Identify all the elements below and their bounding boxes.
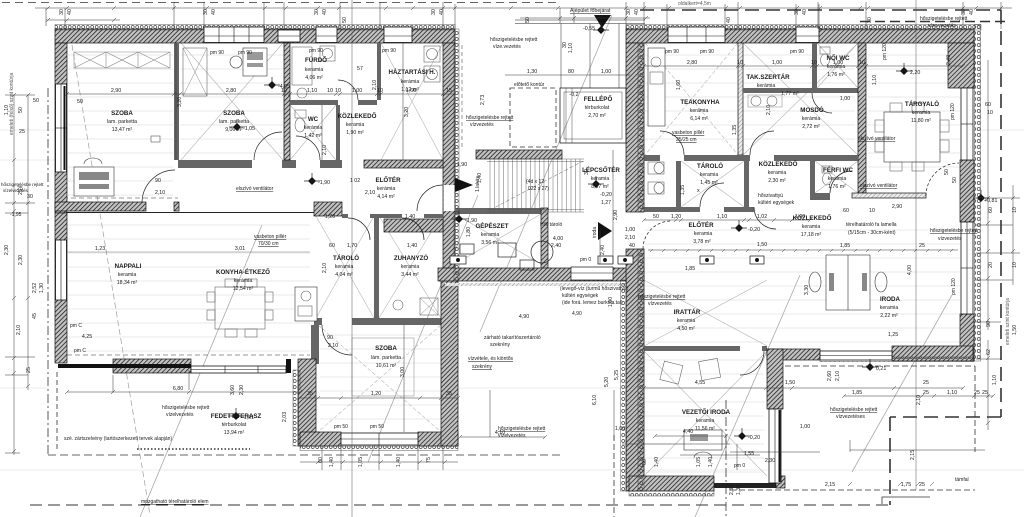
svg-text:pm 90: pm 90 [382, 48, 396, 54]
svg-text:kerámia: kerámia [802, 116, 821, 122]
svg-text:kerámia: kerámia [690, 108, 709, 114]
wall: lepcsoter north band [476, 150, 562, 159]
dashed terrace SE horizontal [785, 365, 975, 367]
wall: office south band east thick [892, 346, 973, 361]
dim chain: left side [14, 95, 28, 455]
svg-text:HW tároló: HW tároló [540, 222, 562, 228]
svg-text:keramia: keramia [912, 110, 931, 116]
svg-text:KÖZLEKEDŐ: KÖZLEKEDŐ [338, 113, 377, 120]
dashed line above glass wall nappali [67, 354, 310, 356]
furniture: kitchen table [215, 287, 265, 329]
insulation strip house top [55, 25, 455, 31]
svg-text:iroda: iroda [592, 227, 598, 238]
note: vasbeton piller office [672, 130, 705, 143]
dim line: fedett terasz windows row [622, 443, 730, 445]
svg-text:A épület főbejárat: A épület főbejárat [570, 8, 611, 14]
svg-text:TAK.SZERTÁR: TAK.SZERTÁR [746, 74, 790, 81]
wall: office right exterior upper [960, 43, 974, 88]
roof diagonal left [140, 225, 262, 517]
wall: vezetoi south glass door [714, 483, 781, 488]
svg-text:1,05: 1,05 [696, 457, 702, 467]
svg-text:75: 75 [426, 457, 432, 463]
wall: vezetoi south exterior [629, 476, 714, 491]
insulation strip office west lower [621, 280, 627, 491]
svg-text:4,25: 4,25 [82, 334, 92, 340]
insulation strip office west [638, 43, 644, 212]
dashed line eloter corridor [55, 197, 178, 199]
svg-text:1,30: 1,30 [527, 69, 537, 75]
door arc: targyalo south dashed [926, 163, 959, 196]
svg-text:keramia: keramia [591, 176, 610, 182]
dim chain: bottom right rows [730, 396, 993, 452]
cross terasz szoba lower [318, 325, 441, 432]
svg-text:10: 10 [335, 88, 341, 94]
svg-text:keramia: keramia [802, 224, 821, 230]
note: fa lamella [846, 222, 897, 236]
room label: eloter office [688, 221, 714, 245]
wall: partition szoba2/wc [284, 43, 290, 160]
svg-text:3,78 m²: 3,78 m² [693, 239, 711, 245]
svg-text:2,15: 2,15 [825, 482, 835, 488]
svg-text:30: 30 [562, 42, 568, 48]
wall: szoba lower south exterior [300, 432, 341, 446]
wall: partition teakonyha/tak.szertar [738, 43, 743, 155]
cross wc house [290, 105, 336, 160]
svg-text:50: 50 [525, 17, 531, 23]
svg-text:1,23: 1,23 [95, 246, 105, 252]
svg-text:1,00: 1,00 [615, 426, 625, 432]
furniture: szoba2 wardrobe [183, 48, 207, 96]
dim chain: office row y209 [644, 219, 810, 221]
wall: band y155 office [644, 155, 660, 161]
svg-text:-1,05: -1,05 [243, 126, 255, 132]
svg-text:WC: WC [308, 116, 319, 123]
svg-text:4,00: 4,00 [907, 265, 913, 275]
window: house west wall lower [56, 240, 67, 300]
svg-text:1,85: 1,85 [852, 390, 862, 396]
svg-text:15: 15 [446, 88, 452, 94]
wall: house left exterior upper [55, 43, 67, 213]
svg-text:pm 90: pm 90 [790, 49, 804, 55]
svg-text:2,90: 2,90 [892, 204, 902, 210]
svg-text:1,05: 1,05 [358, 457, 364, 467]
svg-text:1 02: 1 02 [350, 178, 360, 184]
wall: partition szoba1/szoba2 [174, 43, 179, 160]
wall: house left exterior lower [55, 213, 67, 363]
dashed terrace SE vertical [974, 366, 976, 452]
svg-text:0,21: 0,21 [876, 366, 886, 372]
svg-text:2,30: 2,30 [239, 385, 245, 395]
wall: office right corner pier [948, 43, 974, 88]
door arc: szoba lower [322, 325, 352, 355]
svg-text:17,18 m²: 17,18 m² [801, 232, 822, 238]
svg-text:térburkolat: térburkolat [222, 422, 247, 428]
wall: gepeszet east [541, 208, 548, 274]
cross ferfi wc [815, 161, 858, 193]
door arc: furdo [338, 80, 358, 100]
boundary long dashed bottom [30, 504, 890, 506]
svg-text:3,20: 3,20 [404, 107, 410, 117]
svg-text:11,80 m²: 11,80 m² [911, 118, 931, 124]
svg-text:pm 120: pm 120 [950, 103, 956, 120]
svg-text:2,73: 2,73 [480, 95, 486, 105]
wall: house top exterior [55, 29, 455, 43]
roof diagonal bottom-mid [695, 275, 800, 517]
svg-text:50: 50 [33, 98, 39, 104]
dim chain: top main [35, 7, 1012, 9]
room label: vezetoi iroda [682, 409, 731, 432]
svg-text:keramia: keramia [335, 264, 354, 270]
svg-text:2,30: 2,30 [729, 485, 735, 495]
dim verticals from top chain [46, 2, 1001, 29]
svg-text:30: 30 [203, 9, 209, 15]
svg-text:25: 25 [19, 129, 25, 135]
svg-text:x: x [697, 188, 700, 194]
svg-text:(4d x 12: (4d x 12 [526, 179, 544, 185]
window: house west wall glass door [56, 84, 67, 172]
svg-text:ELŐTÉR: ELŐTÉR [688, 221, 714, 229]
svg-text:1,00: 1,00 [625, 227, 635, 233]
svg-text:40: 40 [322, 9, 328, 15]
cross irattar [644, 280, 767, 346]
svg-text:13,47 m²: 13,47 m² [112, 127, 133, 133]
wall: szoba lower west exterior [298, 359, 316, 446]
wall: step edge black [58, 364, 191, 368]
furniture: haztartasi machines [424, 46, 440, 62]
svg-text:vasbeton pillér: vasbeton pillér [254, 234, 287, 240]
svg-text:pm 90: pm 90 [700, 49, 714, 55]
room label: gepeszet [475, 222, 508, 246]
wall: middle south band [438, 268, 644, 281]
door arc: tarolo office [700, 183, 724, 207]
svg-text:1,02: 1,02 [757, 214, 767, 220]
svg-text:90: 90 [155, 178, 161, 184]
svg-text:50: 50 [18, 107, 24, 113]
insulation strip szoba lower west [293, 370, 299, 446]
svg-text:pm 90: pm 90 [238, 50, 252, 56]
svg-text:2,20: 2,20 [910, 70, 920, 76]
svg-text:40: 40 [439, 9, 445, 15]
svg-text:mozgatható térelhatároló elem: mozgatható térelhatároló elem [141, 499, 209, 505]
door arc: szoba2 [254, 132, 282, 160]
svg-text:-0,20: -0,20 [748, 435, 760, 441]
cross tarolo office [681, 161, 744, 207]
svg-text:1,10: 1,10 [307, 88, 317, 94]
eloteto kontur dashed rect [510, 88, 556, 147]
svg-text:25: 25 [923, 390, 929, 396]
svg-text:1,76 m²: 1,76 m² [828, 184, 846, 190]
svg-text:vízvezetéses: vízvezetéses [836, 414, 865, 420]
outdoor units on south band [450, 256, 764, 264]
wall: band y318 szoba lower north [314, 318, 322, 325]
svg-text:vízvétele, és kiöntős: vízvétele, és kiöntős [468, 356, 514, 362]
door arc: teakonyha [660, 131, 684, 155]
svg-text:GÉPÉSZET: GÉPÉSZET [475, 222, 508, 230]
roof diagonal right [852, 295, 952, 472]
svg-text:25: 25 [923, 380, 929, 386]
room label: tarolo house [333, 254, 359, 278]
note: hoszigeteles top right [920, 16, 968, 29]
svg-text:62: 62 [986, 349, 992, 355]
svg-text:10: 10 [859, 60, 865, 66]
svg-text:2,10: 2,10 [625, 235, 635, 241]
svg-text:12,54 m²: 12,54 m² [233, 286, 254, 292]
svg-text:1,60: 1,60 [676, 80, 682, 90]
svg-text:50: 50 [77, 99, 83, 105]
svg-text:2,10: 2,10 [365, 190, 375, 196]
svg-text:1,10: 1,10 [568, 43, 574, 53]
svg-text:1,10: 1,10 [872, 75, 878, 85]
svg-text:1,30: 1,30 [39, 283, 45, 293]
svg-text:40: 40 [802, 9, 808, 15]
insulation strip office right [975, 25, 981, 362]
dashed vertical bottom middle2 [613, 435, 615, 517]
wall: vezetoi north partition [644, 346, 740, 351]
svg-text:kültéri egységek: kültéri egységek [562, 293, 599, 299]
svg-text:1,00: 1,00 [800, 424, 810, 430]
svg-text:10: 10 [987, 110, 993, 116]
svg-text:FÉRFI WC: FÉRFI WC [823, 166, 853, 174]
wall: office right lower pier [960, 314, 974, 361]
svg-text:keramia: keramia [696, 418, 715, 424]
parquet striping szoba1 [68, 55, 960, 472]
svg-text:60: 60 [318, 457, 324, 463]
svg-text:4,04 m²: 4,04 m² [335, 272, 353, 278]
svg-text:-1,95: -1,95 [10, 212, 22, 218]
furniture: teakonyha counter [648, 48, 665, 126]
svg-text:SZOBA: SZOBA [375, 345, 397, 352]
cross vezetoi [644, 351, 767, 476]
svg-text:25: 25 [26, 367, 32, 373]
svg-text:60: 60 [843, 208, 849, 214]
door arc: tarolo house [348, 218, 370, 240]
room label: targyalo [905, 100, 939, 124]
furniture: office wc stalls [648, 162, 664, 174]
wall: furdo south partition [290, 100, 338, 105]
svg-text:3,30: 3,30 [804, 285, 810, 295]
svg-text:-0,2: -0,2 [569, 92, 578, 98]
svg-text:-1,90: -1,90 [318, 180, 330, 186]
svg-text:2,30: 2,30 [765, 458, 775, 464]
wall: glass wall end post [286, 359, 291, 373]
room label: szoba lower [371, 345, 401, 369]
svg-text:30: 30 [27, 194, 33, 200]
property dash-dot left vertical [47, 88, 49, 455]
room label: fellepo [584, 95, 613, 119]
furniture: wc house toilet [295, 110, 306, 118]
svg-text:emeleti szint kontúrja: emeleti szint kontúrja [1005, 298, 1011, 345]
window: furdo top wall [316, 27, 337, 43]
property long dash right vertical [640, 10, 1001, 505]
svg-text:10: 10 [1012, 207, 1018, 213]
window: vezetoi east glass [769, 409, 781, 483]
roof diagonal mid-left [368, 195, 478, 462]
svg-text:NAPPALI: NAPPALI [115, 263, 142, 270]
svg-text:25: 25 [919, 243, 925, 249]
svg-text:40: 40 [67, 9, 73, 15]
svg-text:40: 40 [211, 9, 217, 15]
svg-text:40: 40 [726, 17, 732, 23]
svg-text:1,76 m²: 1,76 m² [827, 72, 845, 78]
svg-text:1,55: 1,55 [744, 451, 754, 457]
svg-text:1,35: 1,35 [680, 185, 686, 195]
svg-text:1,35: 1,35 [732, 125, 738, 135]
room label: irattar [674, 309, 701, 332]
svg-text:MOSDÓ: MOSDÓ [800, 106, 824, 114]
svg-text:kerámia: kerámia [377, 186, 396, 192]
svg-text:2,90: 2,90 [613, 210, 619, 220]
svg-text:lam. parketta: lam. parketta [107, 119, 137, 125]
svg-text:10: 10 [327, 88, 333, 94]
svg-text:pm 90: pm 90 [309, 48, 323, 54]
wall: eloter south chunk left [314, 202, 342, 216]
svg-text:1,25: 1,25 [888, 332, 898, 338]
room label: haztartasi [389, 69, 436, 93]
svg-text:2,70 m²: 2,70 m² [588, 113, 606, 119]
stairs lepcsoter treads [487, 159, 584, 212]
svg-text:1,50: 1,50 [1012, 325, 1018, 335]
wall: band y207 office corridor [644, 207, 700, 212]
insulation strip office south [820, 357, 974, 362]
svg-text:támfal: támfal [955, 477, 969, 483]
window: office east wall upper [961, 88, 973, 160]
svg-text:(ide forá. lemez burkola.tal): (ide forá. lemez burkola.tal) [562, 300, 623, 306]
svg-text:1,00: 1,00 [840, 96, 850, 102]
svg-text:-1,90: -1,90 [465, 218, 477, 224]
svg-text:6,80: 6,80 [173, 386, 183, 392]
svg-text:18,34 m²: 18,34 m² [117, 280, 138, 286]
room label: ferfi wc [823, 166, 853, 190]
svg-text:1,10: 1,10 [992, 375, 998, 385]
room label: szoba1 [107, 110, 137, 133]
svg-text:FÜRDŐ: FÜRDŐ [305, 57, 327, 64]
svg-text:1,50: 1,50 [757, 242, 767, 248]
svg-text:keramia: keramia [481, 232, 500, 238]
svg-text:10: 10 [737, 60, 743, 66]
room label: zuhanyzo [394, 254, 429, 278]
svg-text:(levegő-víz (turmű hőszivattyú: (levegő-víz (turmű hőszivattyú) [560, 286, 629, 292]
svg-text:szé. zártszelvény (tartószerke: szé. zártszelvény (tartószerkezeti terve… [64, 436, 172, 442]
svg-text:kerámia: kerámia [234, 278, 253, 284]
furniture: noi wc toilet [820, 47, 830, 54]
svg-text:5,25: 5,25 [614, 370, 620, 380]
cross szoba2 [181, 43, 283, 160]
wall: ferfi wc + targyalo south [810, 193, 830, 200]
svg-text:VEZETŐI IRODA: VEZETŐI IRODA [682, 409, 731, 416]
svg-text:keramia: keramia [677, 318, 696, 324]
svg-text:keramia: keramia [828, 176, 847, 182]
wall: noi wc west partition [812, 43, 817, 93]
svg-text:SZOBA: SZOBA [111, 110, 133, 117]
door arc: zuhanyzo [402, 218, 424, 240]
svg-text:45: 45 [32, 313, 38, 319]
wall: szoba1 south wall [55, 202, 146, 211]
wall: office south band mid [767, 349, 820, 360]
wall: partition wc/kozlekedo [336, 105, 340, 160]
svg-text:hőszigetelésbe rejtett: hőszigetelésbe rejtett [638, 294, 686, 300]
dashed terrace SE bottom [730, 489, 975, 491]
svg-text:szekrény: szekrény [472, 364, 493, 370]
svg-text:kültéri egységek: kültéri egységek [758, 200, 795, 206]
window: office south band [820, 351, 892, 360]
svg-text:pm 0: pm 0 [734, 463, 745, 469]
svg-text:40: 40 [634, 9, 640, 15]
svg-text:1,90: 1,90 [457, 162, 467, 168]
wall: partition furdo/haztartasi [377, 43, 381, 100]
svg-text:3,20: 3,20 [177, 97, 183, 107]
svg-text:hőszigetelésbe rejtett: hőszigetelésbe rejtett [1, 182, 44, 187]
dim line: vezetoi inner [680, 444, 760, 470]
svg-text:2,03: 2,03 [282, 412, 288, 422]
svg-text:pm 50: pm 50 [370, 424, 384, 430]
svg-text:2,60: 2,60 [827, 371, 833, 381]
svg-text:4,00: 4,00 [553, 236, 563, 242]
svg-text:1,10: 1,10 [947, 390, 957, 396]
wall: band y160 szoba2/wc south [178, 160, 252, 168]
door arc: wc house [296, 136, 320, 160]
svg-text:80: 80 [568, 69, 574, 75]
svg-text:57: 57 [357, 66, 363, 72]
svg-text:elszívó ventilátor: elszívó ventilátor [860, 183, 898, 189]
svg-text:1,40: 1,40 [708, 457, 714, 467]
svg-text:keramia: keramia [401, 264, 420, 270]
svg-text:4,14 m²: 4,14 m² [377, 194, 395, 200]
svg-text:1,40: 1,40 [405, 214, 415, 220]
window: office east wall lower [961, 222, 973, 314]
svg-text:hőszigetelésbe rejtett: hőszigetelésbe rejtett [490, 37, 538, 43]
svg-text:pm 90: pm 90 [210, 50, 224, 56]
svg-text:kerámia: kerámia [757, 83, 776, 89]
insulation strip szoba lower south [300, 446, 458, 451]
svg-text:1,75: 1,75 [901, 482, 911, 488]
svg-text:3,56 m²: 3,56 m² [481, 240, 499, 246]
svg-text:lám. parketta: lám. parketta [371, 355, 401, 361]
svg-text:50: 50 [952, 177, 958, 183]
svg-text:1,20: 1,20 [671, 214, 681, 220]
dim chain: office corridor bottom [644, 387, 963, 389]
svg-text:kerámia: kerámia [401, 79, 420, 85]
cross zuhanyzo [379, 216, 441, 318]
svg-text:2,72 m²: 2,72 m² [802, 124, 820, 130]
svg-text:+0,81: +0,81 [984, 198, 997, 204]
wall: tarolo east partition office [744, 161, 749, 207]
svg-text:2,30 m²: 2,30 m² [768, 178, 786, 184]
svg-text:50: 50 [944, 169, 950, 175]
svg-text:vízelvezetés: vízelvezetés [166, 412, 194, 418]
window: office top wall big [668, 27, 725, 43]
room label: iroda [880, 296, 901, 319]
room label: tak szertar [746, 74, 799, 97]
svg-text:1,00: 1,00 [601, 69, 611, 75]
svg-text:szekrény: szekrény [490, 342, 511, 348]
wall: office left exterior [626, 43, 644, 212]
svg-text:TEAKONYHA: TEAKONYHA [680, 99, 720, 106]
svg-text:TÁROLÓ: TÁROLÓ [697, 162, 723, 170]
roof diagonal mid [480, 15, 612, 332]
note: kulteri egysegek [560, 286, 629, 317]
svg-text:1,27: 1,27 [601, 200, 611, 206]
note: pm labels [70, 43, 957, 469]
svg-text:2,10: 2,10 [16, 325, 22, 335]
svg-text:30: 30 [314, 9, 320, 15]
svg-text:1,42 m²: 1,42 m² [304, 133, 322, 139]
svg-text:NŐI WC: NŐI WC [826, 55, 850, 62]
svg-text:2,22 m²: 2,22 m² [880, 313, 898, 319]
window: szoba2 top wall [204, 27, 264, 43]
svg-text:2,30: 2,30 [4, 245, 10, 255]
furniture: furdo tub [292, 47, 312, 85]
svg-text:KÖZLEKEDŐ: KÖZLEKEDŐ [793, 215, 832, 222]
